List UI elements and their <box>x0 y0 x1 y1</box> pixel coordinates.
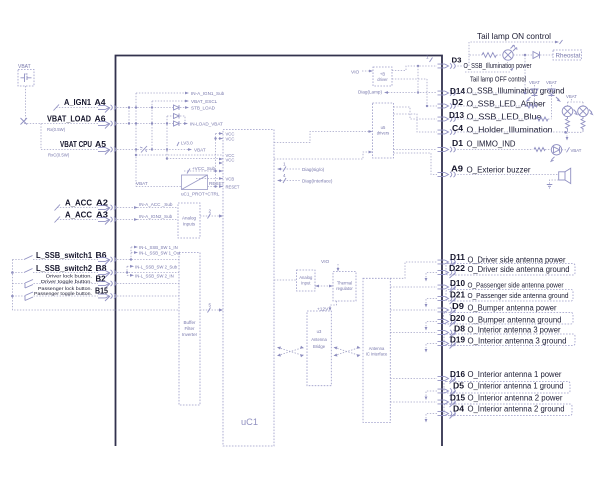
wire tail OFF <box>465 71 511 73</box>
port D3 <box>438 63 456 68</box>
port B2 <box>98 281 116 286</box>
wire analog bus to uC1 <box>200 215 219 217</box>
svg-text:D1: D1 <box>452 138 463 148</box>
wire interface to D11 <box>390 262 437 278</box>
svg-text:VCC: VCC <box>226 137 235 142</box>
svg-text:O_SSB_Illumination ground: O_SSB_Illumination ground <box>467 87 565 96</box>
wire net IGN1_Sub <box>136 92 188 94</box>
arrow Diag sig <box>277 168 281 171</box>
wire B15 lead <box>12 295 98 297</box>
svg-text:RESET: RESET <box>209 181 225 186</box>
svg-text:D5: D5 <box>453 381 464 391</box>
tick D11 <box>450 262 456 268</box>
wire U6 to D3 <box>392 66 437 71</box>
wire analog to thermal <box>315 285 333 287</box>
wire Diag interface stub <box>278 180 300 182</box>
wire A9 row <box>455 174 559 176</box>
switch driver toggle <box>25 284 33 289</box>
tick D5 <box>450 391 456 397</box>
svg-text:A_ACC: A_ACC <box>65 199 92 208</box>
svg-text:D13: D13 <box>449 110 464 120</box>
junction dot diag node <box>417 91 419 93</box>
svg-text:VBAT: VBAT <box>136 181 148 186</box>
riser x152 ESCL <box>151 101 153 150</box>
svg-text:O_Bumper antenna ground: O_Bumper antenna ground <box>468 316 562 325</box>
wire A5 row <box>117 149 188 151</box>
wire D13 row <box>455 118 537 120</box>
wire tail lamp ON <box>469 42 555 55</box>
wire LED3 to VBAT <box>562 149 566 151</box>
arrow ACC_Sub <box>134 206 138 209</box>
svg-text:L_SSB_switch2: L_SSB_switch2 <box>36 264 93 273</box>
arrow IGN2_Sub <box>134 218 138 221</box>
tick D20 <box>450 321 456 327</box>
TVS tick on A5 row <box>140 146 147 153</box>
wire B8 row <box>117 272 179 274</box>
port D13 <box>438 116 456 121</box>
svg-text:VBAT CPU: VBAT CPU <box>60 140 92 149</box>
junction dots riser215 <box>214 137 216 139</box>
tick A4 end <box>54 105 60 111</box>
wire mid branch row <box>167 116 185 124</box>
speaker SP1 <box>559 172 565 180</box>
wire speaker ground <box>550 180 559 184</box>
svg-text:O_Passenger side antenna power: O_Passenger side antenna power <box>468 281 564 290</box>
arrow IGN1_Sub <box>185 92 189 95</box>
port D1 <box>438 147 456 152</box>
arrows crossed left <box>277 346 304 357</box>
wire D2 row <box>455 105 527 107</box>
analog inputs box U3 <box>178 203 200 238</box>
port D2 <box>438 103 456 108</box>
svg-text:+VCC_Sub: +VCC_Sub <box>192 166 216 171</box>
LED1 amber <box>534 85 536 89</box>
svg-text:D3: D3 <box>452 56 462 65</box>
arrow +12V <box>329 308 332 312</box>
wire VIO to thermal <box>337 264 339 268</box>
ground hook D19 <box>426 344 437 350</box>
wire D14 row <box>455 92 526 94</box>
arrow buffer bus <box>219 308 223 311</box>
label box D4 <box>444 404 572 416</box>
port D15 <box>438 399 456 404</box>
svg-text:Diag(sig/o): Diag(sig/o) <box>302 167 325 172</box>
svg-text:D10: D10 <box>450 278 465 288</box>
arrow U5 in2 <box>369 151 373 154</box>
junction dot SW1 <box>130 258 132 260</box>
wire C4 row <box>455 131 566 133</box>
svg-text:VIO: VIO <box>351 70 360 76</box>
wire VCC row b <box>167 158 223 160</box>
svg-text:Inverter: Inverter <box>182 332 198 337</box>
svg-text:B2: B2 <box>96 275 107 284</box>
arrow C4 down <box>566 133 568 138</box>
junction dot SW2 <box>126 271 128 273</box>
resistor R4 on D1 <box>534 148 545 152</box>
wire B2 lead <box>12 283 98 285</box>
svg-text:RxC(0.5W): RxC(0.5W) <box>48 153 70 158</box>
svg-text:Tail lamp OFF control: Tail lamp OFF control <box>470 77 526 84</box>
wire VCC row a <box>136 154 223 156</box>
node X junction <box>21 118 28 125</box>
wire A6 row to LOAD_VBAT <box>117 123 187 125</box>
svg-text:A6: A6 <box>95 115 107 124</box>
svg-text:Rx(0.5W): Rx(0.5W) <box>47 127 66 132</box>
tick B2 slash <box>105 284 110 289</box>
svg-text:Bridge: Bridge <box>313 344 326 349</box>
svg-text:O_Interior antenna 2 power: O_Interior antenna 2 power <box>468 394 563 403</box>
tick D19 <box>450 343 456 349</box>
svg-text:D4: D4 <box>453 404 464 414</box>
tick D21 <box>450 299 456 305</box>
port D22 <box>438 270 456 275</box>
bridge box U9 <box>307 311 331 386</box>
wire A4 lead <box>56 107 98 109</box>
svg-text:O_Holder_Illumination: O_Holder_Illumination <box>467 126 553 135</box>
svg-text:O_Interior antenna 3 power: O_Interior antenna 3 power <box>468 326 561 335</box>
wire A2 row <box>117 207 178 209</box>
svg-text:uC1: uC1 <box>241 417 258 427</box>
svg-text:4: 4 <box>283 173 286 178</box>
label box D21 <box>446 290 573 302</box>
wire LED2 to D13 <box>551 96 553 120</box>
svg-text:O_IMMO_IND: O_IMMO_IND <box>467 140 516 149</box>
resistor R1 <box>482 53 496 58</box>
port A6 <box>98 121 116 126</box>
riser x215 VCC feed <box>215 134 217 187</box>
uC1 pin arrows left <box>219 132 223 188</box>
wire VBAT to A6 rail <box>25 86 27 121</box>
slash +VCC_Sub <box>187 169 190 174</box>
svg-text:VBAT: VBAT <box>571 148 582 153</box>
switch driver lock <box>25 280 33 284</box>
wire R4 to LED3 <box>545 149 551 151</box>
svg-text:O_Interior antenna 3 ground: O_Interior antenna 3 ground <box>468 337 567 346</box>
svg-text:uC1_PROT+CTRL: uC1_PROT+CTRL <box>181 192 220 197</box>
svg-text:Buffer: Buffer <box>184 320 196 325</box>
svg-text:Diag(Lamp): Diag(Lamp) <box>358 90 382 95</box>
arrow Diag lamp <box>384 91 388 94</box>
svg-text:Rheostat: Rheostat <box>556 54 581 60</box>
riser x136 IGN1_Sub to VBAT reg <box>135 93 137 187</box>
label box D20 <box>444 313 574 325</box>
arrow analog bus <box>219 214 223 217</box>
svg-text:O_Interior antenna 1 power: O_Interior antenna 1 power <box>468 370 562 379</box>
svg-text:IN-L_SSB_SW 2_Sub: IN-L_SSB_SW 2_Sub <box>135 264 178 269</box>
wire uC1 to U5 in1 <box>274 132 369 143</box>
svg-text:VBAT: VBAT <box>546 80 557 85</box>
holder lamp 2 <box>578 106 589 117</box>
arrow VIO <box>369 70 373 73</box>
junction dot D14 <box>524 92 527 95</box>
port D20 <box>438 319 456 324</box>
svg-text:D22: D22 <box>449 263 465 273</box>
label box D5 <box>444 382 570 394</box>
regulator U2 box <box>182 175 208 190</box>
svg-text:VBAT: VBAT <box>566 94 577 99</box>
arrow tail OFF <box>510 68 514 72</box>
slash bus at D3 <box>430 58 433 63</box>
tick D16 <box>450 378 456 384</box>
svg-text:Tail lamp ON control: Tail lamp ON control <box>477 31 551 41</box>
ground speaker <box>547 185 553 189</box>
junction dots riser129 <box>128 106 130 108</box>
svg-text:B6: B6 <box>96 251 108 260</box>
svg-text:D11: D11 <box>450 252 465 262</box>
svg-text:IN-L_SSB_SW 2_IN: IN-L_SSB_SW 2_IN <box>135 273 174 278</box>
svg-text:D8: D8 <box>454 324 465 334</box>
wire D3 node down <box>417 66 419 93</box>
tick A4 slash <box>105 108 110 113</box>
svg-text:IC Interface: IC Interface <box>366 352 388 357</box>
tick A3 end <box>55 217 61 223</box>
tick A6 slash <box>105 124 110 129</box>
svg-text:VIO: VIO <box>321 259 330 265</box>
tick D4 <box>450 413 456 419</box>
svg-text:O_SSB_LED_Amber: O_SSB_LED_Amber <box>467 100 546 109</box>
ground hook D5 <box>426 391 437 397</box>
svg-text:LV3.0: LV3.0 <box>181 141 193 146</box>
LED3 immo indicator <box>551 145 561 155</box>
arrow STB_LOAD <box>185 106 189 109</box>
svg-text:Diag(Interface): Diag(Interface) <box>302 179 333 184</box>
wire +12V to bridge <box>330 301 337 308</box>
junction dot D3 node <box>417 65 419 67</box>
svg-text:IN-A_IGN1_Sub: IN-A_IGN1_Sub <box>191 91 225 96</box>
slash bus 2 <box>208 214 211 219</box>
svg-text:O_Passenger side antenna groun: O_Passenger side antenna ground <box>468 291 569 300</box>
tick B6 slash <box>105 260 110 265</box>
svg-text:VBAT: VBAT <box>194 148 206 153</box>
riser SW1 nets <box>131 247 134 260</box>
crossed wires uC1 to bridge <box>278 348 303 356</box>
wire U5 to D1 <box>394 149 438 151</box>
svg-text:driver: driver <box>377 77 388 82</box>
microcontroller uC1 box <box>223 130 274 447</box>
wire interface to D10 <box>390 286 437 288</box>
ground hook D21 <box>426 299 437 305</box>
svg-text:RESET: RESET <box>226 185 240 190</box>
svg-text:STB_LOAD: STB_LOAD <box>191 106 216 111</box>
arrow hook D22 <box>425 278 428 282</box>
resistor R2 on D2 <box>526 104 537 108</box>
svg-text:u5: u5 <box>381 125 386 130</box>
svg-text:1: 1 <box>283 162 286 167</box>
port B15 <box>98 293 116 298</box>
svg-text:drivers: drivers <box>377 131 390 136</box>
ground hook D22 <box>426 273 437 279</box>
wire A3 lead <box>57 219 98 221</box>
crossed wires bridge to interface <box>335 348 360 356</box>
wire Diag sig stub <box>278 168 300 170</box>
port A2 <box>98 205 116 210</box>
label box D22 <box>446 264 575 276</box>
wire diode to rheostat <box>540 54 553 56</box>
slash bus 5 <box>208 308 211 313</box>
wire RESET out <box>208 186 224 188</box>
svg-text:B8: B8 <box>96 264 108 273</box>
wire A6 lead <box>24 123 98 125</box>
battery symbol <box>21 74 32 83</box>
resistor holder 1 <box>566 117 570 131</box>
wire U5 to A9 <box>394 153 438 175</box>
tick D22 <box>450 273 456 279</box>
label box D19 <box>444 334 575 346</box>
analog input box U7 <box>297 270 316 291</box>
wire VIO to U6 <box>362 70 369 72</box>
arrow U5 in1 <box>369 130 373 133</box>
svg-text:IN-A_IGN2_Sub: IN-A_IGN2_Sub <box>139 214 173 219</box>
tick tail ON end <box>560 40 563 44</box>
junction dot C4 <box>564 131 567 134</box>
wire A4 row to STB_LOAD <box>117 107 188 109</box>
driver U5 box <box>373 103 394 158</box>
svg-text:Inputs: Inputs <box>183 222 196 227</box>
svg-text:Antenna: Antenna <box>369 346 385 351</box>
arrow hook D4 <box>425 419 428 423</box>
svg-text:Thermal: Thermal <box>337 281 352 286</box>
svg-text:D9: D9 <box>452 301 464 311</box>
port D4 <box>438 411 456 416</box>
tick D8 <box>450 332 456 338</box>
wire A2 lead <box>57 207 98 209</box>
svg-text:Analog: Analog <box>182 216 197 221</box>
svg-text:Analog: Analog <box>299 275 313 280</box>
wire U6 out2 to D2 <box>392 79 437 106</box>
svg-text:VCC: VCC <box>226 158 235 163</box>
svg-text:O_Interior antenna 2 ground: O_Interior antenna 2 ground <box>468 405 565 414</box>
wire A6 to A5 riser <box>40 124 42 150</box>
arrow VBAT_ESCL <box>185 100 189 103</box>
port D5 <box>438 388 456 393</box>
svg-text:L_SSB_switch1: L_SSB_switch1 <box>36 251 93 260</box>
wire buffer bus to uC1 <box>200 309 219 311</box>
diode D-b mid row <box>174 114 180 119</box>
slash Diag sig <box>283 167 286 172</box>
svg-text:2: 2 <box>209 209 212 214</box>
wire Diag lamp row <box>388 92 437 94</box>
switch SW1 <box>24 256 33 260</box>
svg-text:1: 1 <box>426 55 429 60</box>
svg-text:IN-LOAD_VBAT: IN-LOAD_VBAT <box>190 122 223 127</box>
arrows crossed right <box>334 346 361 357</box>
resistor R3 on D13 <box>536 117 548 121</box>
svg-text:D15: D15 <box>450 393 465 403</box>
arrow hook D5 <box>425 397 428 401</box>
switch bus rail <box>12 260 179 311</box>
svg-text:+B: +B <box>380 72 385 77</box>
arrow hook D20 <box>425 327 428 331</box>
wire VCB stub <box>196 178 223 180</box>
svg-text:regulator: regulator <box>336 286 353 291</box>
svg-text:Driver lock button.: Driver lock button. <box>46 274 92 280</box>
svg-text:O_Driver side antenna ground: O_Driver side antenna ground <box>468 265 570 274</box>
wire LED1 to D2 <box>534 96 536 107</box>
svg-text:O_SSB_LED_Blue: O_SSB_LED_Blue <box>467 113 543 122</box>
wire VCC pin1 <box>216 133 224 135</box>
arrow tail ON <box>555 41 559 44</box>
svg-text:IN-L_SSB_SW 1_IN: IN-L_SSB_SW 1_IN <box>139 245 178 250</box>
svg-text:D20: D20 <box>450 313 465 323</box>
svg-text:VBAT: VBAT <box>529 80 540 85</box>
svg-text:5: 5 <box>209 303 212 308</box>
wire B15 row <box>117 295 179 297</box>
port D11 <box>438 259 456 264</box>
svg-text:D16: D16 <box>450 369 465 379</box>
svg-text:Passenger lock button.: Passenger lock button. <box>38 286 92 292</box>
tick A5 slash <box>105 150 110 155</box>
junction dots riser152 <box>151 106 153 108</box>
svg-text:VBAT_ESCL: VBAT_ESCL <box>191 99 218 104</box>
svg-text:A_ACC: A_ACC <box>65 211 92 220</box>
riser SW2 nets <box>127 266 130 275</box>
buffer box U4 <box>179 253 200 406</box>
VBAT supply box <box>18 70 34 87</box>
port D14 <box>438 90 456 95</box>
rheostat box <box>553 50 582 60</box>
wire net VBAT_ESCL <box>152 100 188 102</box>
port D19 <box>438 341 456 346</box>
switch passenger lock <box>25 292 33 296</box>
ground hook D20 <box>426 322 437 328</box>
port D16 <box>438 376 456 381</box>
svg-text:VBAT_LOAD: VBAT_LOAD <box>47 115 91 124</box>
arrow SW1 nets <box>134 246 138 254</box>
junction dot D2 node <box>426 105 428 107</box>
svg-text:+12V: +12V <box>317 307 329 313</box>
arrow SW2 nets <box>130 265 134 277</box>
arrow VIO mid <box>337 268 340 272</box>
svg-text:u3: u3 <box>317 329 322 334</box>
wire B8 lead <box>12 272 98 274</box>
junction dots riser167 <box>166 122 168 124</box>
port A4 <box>98 105 116 110</box>
tick A2 slash <box>105 208 110 213</box>
tick VBAT immo <box>567 147 570 152</box>
port D10 <box>438 284 456 289</box>
wire VCC pin2 <box>216 138 224 140</box>
wire B6 lead <box>12 259 98 261</box>
svg-text:O_SSB_Illumination power: O_SSB_Illumination power <box>464 63 533 70</box>
svg-text:A_IGN1: A_IGN1 <box>64 98 92 107</box>
diode D-a on A4 row <box>174 105 180 110</box>
wire interface to D9 <box>390 309 437 311</box>
junction dot lamp node <box>524 54 527 57</box>
wire A3 row <box>117 219 178 221</box>
tick D10 <box>450 287 456 293</box>
wire D1 row <box>455 149 534 151</box>
arrow Diag interface <box>277 179 281 182</box>
port D9 <box>438 307 456 312</box>
svg-text:VCB: VCB <box>226 177 235 182</box>
wire lamp node down to D14 <box>524 55 526 93</box>
riser x167 <box>166 116 168 159</box>
wire lamp to diode <box>513 54 533 56</box>
resistor holder 2 <box>581 117 585 131</box>
diode D-lamp <box>533 52 540 59</box>
wire A5 lead <box>41 149 98 151</box>
diode D-c on A6 row <box>174 121 180 126</box>
lamp arrows <box>511 45 518 51</box>
tick D15 <box>450 402 456 408</box>
antenna IC interface box U10 <box>363 278 390 422</box>
riser x129 A4-A6 <box>128 108 130 124</box>
holder lamp 1 <box>562 106 573 117</box>
wire reg input <box>136 186 182 188</box>
wire R1 to lamp <box>497 54 503 56</box>
svg-text:O_Exterior buzzer: O_Exterior buzzer <box>467 166 531 175</box>
ECU outer box <box>116 56 443 447</box>
